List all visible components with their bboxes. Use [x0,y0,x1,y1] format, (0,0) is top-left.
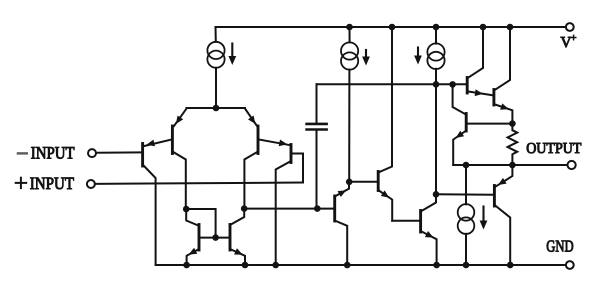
node rail-cs2 [433,24,440,31]
output terminal [568,161,576,169]
transistor Q6 [229,225,232,251]
transistor QC emitter [453,131,466,165]
transistor Q2 [141,144,144,167]
node gnd-q5 [183,262,190,269]
svg-text:+: + [571,33,577,44]
transistor Q6 collector [231,209,244,225]
transistor Q3 emitter [245,109,257,126]
wire tail-branches [187,107,246,109]
node rail-q8 [389,24,396,31]
transistor QC [465,114,468,132]
transistor QD base [436,193,493,196]
node gnd-cs4 [463,262,470,269]
transistor Q1 emitter [174,109,187,126]
transistor Q8 collector [378,27,392,173]
transistor Q7 [333,196,336,221]
label -INPUT [18,144,75,163]
transistor Q4 [290,145,293,163]
wire bias-line [317,83,467,85]
transistor Q9 [419,211,422,233]
transistor QA [466,78,469,94]
arrow I3 [414,48,422,65]
arrow I1 [228,44,236,66]
transistor QD [493,186,496,207]
node q7-q8 [346,179,353,186]
transistor QB emitter [495,103,512,122]
node gnd-q7 [344,262,351,269]
node bias-qc [449,81,456,88]
wire cs2-bottom [348,70,350,182]
transistor Q5 collector [186,209,198,226]
V+ terminal [566,23,574,31]
node mirror-right [241,205,248,212]
transistor Q8 [377,172,380,191]
arrow I2 [362,50,370,66]
node input-tail [213,105,220,112]
transistor QA collector [468,27,483,78]
transistor Q3 [257,126,260,154]
transistor Q2 collector [143,165,156,266]
wire -input [96,151,141,153]
transistor Q4 emitter [258,139,289,146]
transistor QC base [468,123,513,125]
transistor Q2 emitter [144,139,172,146]
wire cs1-top [215,27,217,42]
svg-text:GND: GND [546,237,573,256]
transistor QD collector [495,206,510,266]
node bias-cs2 [433,81,440,88]
wire +input [95,183,303,184]
transistor QC collector [453,84,466,114]
label GND [546,237,573,256]
transistor Q4 collector [276,161,291,265]
capacitor C1 [307,124,327,130]
svg-text:OUTPUT: OUTPUT [526,140,582,157]
node gnd-q9 [433,262,440,269]
wire cs1-bottom [215,68,217,108]
wire cap-top [316,84,318,122]
wire cap-bottom [316,131,318,209]
node qb-r1 [509,120,516,127]
node gnd-q6 [242,262,249,269]
current source I4 [458,204,475,234]
transistor Q8 emitter [378,190,392,221]
node out-cs4 [463,162,470,169]
transistor Q9 emitter [421,231,437,265]
node rail-cs1 [346,24,353,31]
label OUTPUT [526,140,582,157]
svg-text:INPUT: INPUT [30,174,75,193]
transistor Q9 base [392,220,419,222]
transistor QB collector [495,27,510,90]
transistor Q5 [198,225,201,251]
-input terminal [88,149,96,157]
wire cs2-top [349,27,351,42]
wire output [453,164,566,166]
wire cs4-bottom [465,234,467,265]
current source I1 [207,42,224,68]
wire mirror-diode [186,209,215,238]
wire cs4-top [465,165,467,204]
transistor Q8 base [349,181,377,183]
transistor QD emitter [496,165,512,186]
wire mirror-out [244,208,334,210]
ground terminal [566,261,574,269]
label V+ [561,33,577,51]
transistor Q3 collector [244,152,258,209]
transistor Q7 collector [335,221,348,266]
current source I3 [427,43,444,69]
transistor Q1 [171,126,174,154]
label +INPUT [16,174,75,193]
resistor R1 [508,124,518,165]
wire mirror-bases [199,237,230,239]
node rail-qa [480,24,487,31]
svg-text:INPUT: INPUT [31,144,75,163]
wire V+ rail [216,26,567,28]
node cap-base [314,205,321,212]
wire cs3-top [435,27,437,44]
wire cs3-bottom [435,69,437,195]
transistor QA emitter [468,89,492,96]
node gnd-q4 [272,262,279,269]
node out-r1 [509,162,516,169]
node mirror-left [183,206,190,213]
node mirror-base [212,234,219,241]
node rail-qb [507,24,514,31]
transistor Q6 emitter [230,248,245,265]
transistor Q9 collector [421,194,436,211]
+input terminal [87,180,95,188]
current source I2 [341,42,358,69]
node gnd-qd [507,262,514,269]
transistor Q4 base [292,154,303,183]
node q9-sink-base [433,191,440,198]
transistor QB [492,90,495,106]
transistor Q1 collector [172,152,185,210]
arrow I4 [480,207,488,230]
wire ground rail [156,264,566,266]
transistor Q5 emitter [187,248,199,265]
transistor Q7 emitter [335,182,349,197]
